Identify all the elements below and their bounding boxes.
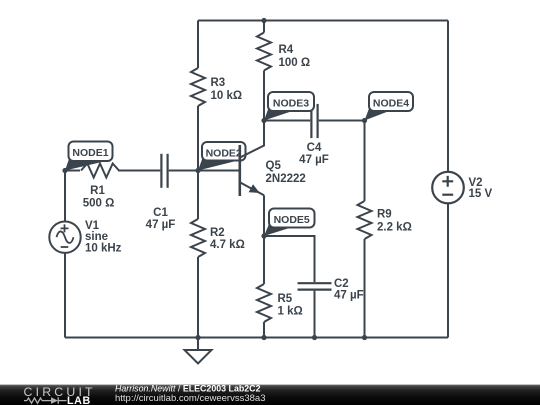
node NODE5 [261, 209, 314, 239]
svg-text:R9: R9 [377, 209, 392, 221]
wire emitter lead [263, 195, 265, 236]
Q5 type label [266, 160, 306, 185]
capacitor C2 [298, 283, 332, 337]
svg-text:NODE5: NODE5 [274, 214, 310, 226]
C2 value label [334, 278, 364, 302]
transistor Q5 [239, 121, 264, 197]
svg-text:47 µF: 47 µF [146, 219, 176, 231]
resistor R3 [191, 21, 205, 171]
footer credit text [115, 384, 265, 404]
svg-text:Q5: Q5 [266, 160, 282, 172]
svg-text:100 Ω: 100 Ω [279, 57, 311, 69]
svg-text:http://circuitlab.com/ceweervs: http://circuitlab.com/ceweervss38a3 [115, 393, 265, 404]
node NODE1 [62, 142, 112, 174]
wire base lead [198, 170, 239, 172]
svg-text:C2: C2 [334, 278, 349, 290]
CircuitLab logo [24, 385, 96, 405]
svg-text:R3: R3 [211, 77, 226, 89]
capacitor C4 [311, 104, 364, 138]
ground [185, 338, 212, 364]
resistor R5 [257, 236, 271, 338]
R4 value label [279, 44, 311, 69]
svg-text:sine: sine [85, 231, 108, 243]
svg-text:R1: R1 [90, 185, 105, 197]
svg-text:4.7 kΩ: 4.7 kΩ [210, 239, 245, 251]
R1 value label [83, 185, 115, 210]
wire top rail [198, 20, 448, 22]
junction bottom R5 [261, 335, 266, 340]
footer bar [0, 385, 540, 405]
svg-text:R2: R2 [210, 227, 225, 239]
resistor R9 [358, 121, 372, 338]
wire right rail lower [447, 203, 449, 337]
svg-text:NODE3: NODE3 [273, 98, 309, 110]
resistor R4 [257, 21, 271, 121]
svg-text:47 µF: 47 µF [334, 290, 364, 302]
svg-text:R5: R5 [278, 293, 293, 305]
junction bottom ground [195, 335, 200, 340]
svg-text:C1: C1 [153, 207, 168, 219]
V1 value label [85, 220, 122, 255]
svg-text:10 kΩ: 10 kΩ [211, 90, 243, 102]
junction bottom C2 [312, 335, 317, 340]
wire V1 bottom lead [64, 253, 66, 338]
wire V1 top lead [64, 171, 66, 222]
voltage source V2 [432, 172, 464, 204]
V2 value label [469, 177, 493, 200]
svg-text:C4: C4 [307, 142, 322, 154]
wire bottom rail [65, 337, 448, 339]
R2 value label [210, 227, 245, 251]
svg-text:2N2222: 2N2222 [266, 173, 306, 185]
C1 value label [146, 207, 176, 231]
voltage source V1 [49, 222, 80, 253]
C4 value label [299, 142, 329, 166]
R5 value label [278, 293, 303, 318]
wire right rail upper [447, 21, 449, 172]
R3 value label [211, 77, 243, 102]
svg-text:10 kHz: 10 kHz [85, 243, 122, 255]
svg-text:NODE1: NODE1 [72, 147, 108, 159]
resistor R2 [191, 171, 205, 338]
svg-text:LAB: LAB [67, 395, 91, 405]
R9 value label [377, 209, 412, 234]
svg-text:2.2 kΩ: 2.2 kΩ [377, 222, 412, 234]
resistor R1 [65, 164, 119, 178]
wire collector to C4 [264, 120, 310, 122]
svg-text:R4: R4 [279, 44, 294, 56]
node NODE2 [195, 142, 245, 173]
svg-text:47 µF: 47 µF [299, 154, 329, 166]
svg-text:NODE4: NODE4 [373, 98, 409, 110]
junction bottom R9 [362, 335, 367, 340]
node NODE3 [261, 92, 314, 123]
capacitor C1 [118, 154, 198, 188]
svg-text:500 Ω: 500 Ω [83, 198, 115, 210]
node NODE4 [362, 92, 413, 123]
svg-text:15 V: 15 V [469, 188, 493, 200]
svg-text:NODE2: NODE2 [206, 147, 242, 159]
junction top R4 tap [261, 18, 266, 23]
svg-text:1 kΩ: 1 kΩ [278, 306, 303, 318]
wire NODE5 to C2 [264, 236, 315, 282]
